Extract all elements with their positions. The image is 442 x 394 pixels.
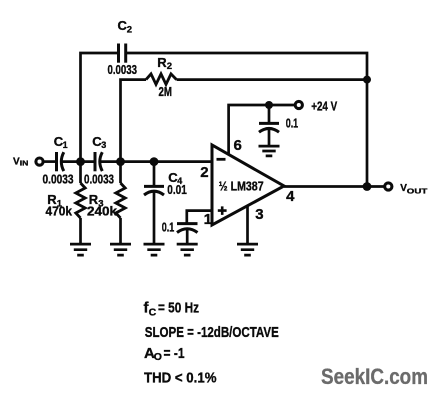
wire C1 to C3 <box>62 160 95 163</box>
wire VIN to C1 <box>43 160 56 163</box>
label 470k <box>46 205 73 219</box>
capacitor 0.1 (pin 1) <box>177 224 198 233</box>
wire node B down to R3 <box>119 162 122 183</box>
wire op-amp pin 6 to +24V <box>229 105 296 155</box>
wire C3 to op-amp pin 2 <box>101 160 213 163</box>
label +24 V <box>311 98 337 113</box>
label 2M <box>159 85 173 99</box>
op-amp plus sign <box>218 206 227 215</box>
label C3 <box>92 134 106 150</box>
svg-text:R: R <box>157 55 167 70</box>
label R1 <box>47 192 63 209</box>
label 240k <box>87 205 117 219</box>
wire op-amp output to VOUT <box>284 185 385 188</box>
label R3 <box>89 192 104 209</box>
wire node A down to R1 <box>79 162 82 183</box>
svg-text:6: 6 <box>234 137 242 154</box>
pin label 4 <box>286 188 295 205</box>
wire node A up and right to C2 <box>81 53 119 162</box>
svg-text:2: 2 <box>167 61 172 72</box>
wire 0.1 cap to ground <box>186 229 189 244</box>
watermark SeekIC.com <box>321 364 428 389</box>
note SLOPE = -12dB/OCTAVE <box>145 324 279 341</box>
svg-text:0.01: 0.01 <box>167 183 187 197</box>
label 1/2 LM387 <box>219 179 264 194</box>
label 0.0033 (C3) <box>84 173 114 187</box>
resistor R3 <box>116 183 125 218</box>
svg-text:O: O <box>154 351 162 363</box>
capacitor C3 <box>95 152 102 171</box>
svg-text:THD < 0.1%: THD < 0.1% <box>144 369 217 386</box>
label R2 <box>157 55 172 72</box>
svg-text:2: 2 <box>200 164 208 181</box>
pin label 2 <box>200 164 208 181</box>
label 0.1 (+24V) <box>286 117 299 131</box>
node F junction (output) <box>363 182 372 191</box>
wire R1 to ground <box>79 218 82 244</box>
svg-text:240k: 240k <box>87 205 117 219</box>
node B junction <box>116 157 125 166</box>
label VIN <box>13 156 28 167</box>
resistor R2 <box>146 74 177 85</box>
wire op-amp pin 1 <box>187 211 213 223</box>
svg-text:+24 V: +24 V <box>311 98 337 113</box>
node A junction <box>76 157 85 166</box>
capacitor C4 <box>144 186 164 195</box>
terminal +24V <box>295 101 302 108</box>
label 0.1 (pin 1) <box>162 220 175 234</box>
svg-text:2M: 2M <box>159 85 173 99</box>
ground (pin 1 cap) <box>177 244 198 255</box>
svg-text:0.1: 0.1 <box>162 220 175 234</box>
note fc = 50Hz <box>144 300 200 319</box>
svg-text:1: 1 <box>204 211 212 228</box>
pin label 1 <box>204 211 212 228</box>
label C2 <box>118 18 132 35</box>
pin label 3 <box>255 206 263 223</box>
label C4 <box>168 170 182 186</box>
svg-text:3: 3 <box>101 140 106 150</box>
node E junction (+24V) <box>265 101 273 109</box>
note THD < 0.1% <box>144 369 217 386</box>
wire C2 right and down to output node <box>126 53 367 187</box>
ground (C4) <box>144 244 165 255</box>
resistor R1 <box>76 183 85 218</box>
wire op-amp pin 3 to ground <box>246 206 249 244</box>
wire node C down to C4 <box>153 162 156 186</box>
svg-text:2: 2 <box>127 24 132 35</box>
svg-text:SLOPE = -12dB/OCTAVE: SLOPE = -12dB/OCTAVE <box>145 324 279 341</box>
wire R3 to ground <box>119 218 122 244</box>
wire 0.1 cap to ground <box>268 129 271 146</box>
ground (+24V cap) <box>259 146 280 156</box>
svg-text:0.0033: 0.0033 <box>108 63 138 77</box>
op-amp U1 triangle <box>212 145 284 225</box>
note Ao = -1 <box>144 345 185 363</box>
node D junction (R2/C2 feedback) <box>363 76 371 84</box>
pin label 6 <box>234 137 242 154</box>
op-amp minus sign <box>217 158 226 161</box>
ground (pin 3) <box>237 244 258 255</box>
svg-text:= 50 Hz: = 50 Hz <box>158 300 199 317</box>
svg-text:0.1: 0.1 <box>286 117 299 131</box>
svg-text:1: 1 <box>63 140 68 150</box>
wire node B up to R2 <box>121 80 147 162</box>
capacitor C2 <box>119 44 126 63</box>
svg-text:IN: IN <box>20 159 29 168</box>
svg-text:0.0033: 0.0033 <box>43 173 74 187</box>
svg-text:SeekIC.com: SeekIC.com <box>321 364 428 389</box>
svg-text:= -1: = -1 <box>164 345 185 362</box>
svg-text:4: 4 <box>286 188 295 205</box>
node C junction <box>150 157 159 166</box>
wire node E down to 0.1 cap <box>268 105 271 123</box>
label 0.0033 (C1) <box>43 173 74 187</box>
svg-text:OUT: OUT <box>407 186 428 195</box>
label C1 <box>54 134 68 150</box>
svg-text:470k: 470k <box>46 205 73 219</box>
ground (R3) <box>110 244 131 255</box>
capacitor 0.1 (+24V) <box>259 123 279 132</box>
svg-text:3: 3 <box>255 206 263 223</box>
svg-text:0.0033: 0.0033 <box>84 173 114 187</box>
terminal VIN <box>36 158 43 165</box>
label 0.0033 (C2) <box>108 63 138 77</box>
label VOUT <box>400 183 428 195</box>
wire C4 to ground <box>153 192 156 244</box>
svg-text:C: C <box>149 306 157 318</box>
wire R2 to node D <box>177 78 368 81</box>
svg-text:½ LM387: ½ LM387 <box>219 179 264 194</box>
capacitor C1 <box>57 152 64 171</box>
ground (R1) <box>70 244 91 255</box>
terminal VOUT <box>385 183 392 190</box>
label 0.01 <box>167 183 187 197</box>
